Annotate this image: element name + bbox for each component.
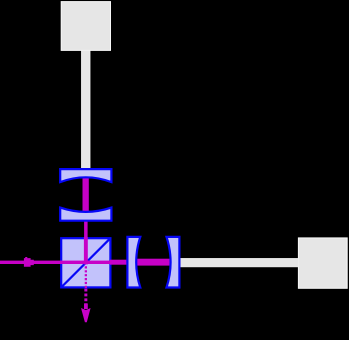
beamsplitter cube bbox=[61, 238, 110, 287]
horizontal beam cube to lens L3 (slightly thicker) bbox=[110, 260, 138, 265]
detector box top (laser/detector) bbox=[61, 2, 110, 51]
beamsplitter diagonal bbox=[61, 238, 110, 287]
thin horizontal input beam bbox=[0, 261, 138, 264]
wide vertical beam between lenses L1 L2 bbox=[83, 176, 89, 215]
wide horizontal beam between lenses L3 L4 bbox=[136, 259, 173, 266]
mounting rail vertical bbox=[81, 50, 90, 169]
lens L4 plano-concave (concave left, flat right) bbox=[167, 237, 180, 288]
thin vertical beam lens L2 to cube center bbox=[84, 212, 88, 238]
lens L2 plano-concave (concave top, flat bottom) bbox=[60, 208, 111, 221]
dotted transmitted beam below cube bbox=[84, 289, 87, 307]
mounting rail horizontal bbox=[179, 258, 298, 267]
downward arrowhead (dashed-arrow style) bbox=[84, 304, 88, 310]
detector box right bbox=[298, 238, 347, 288]
lens L1 plano-concave (flat top, concave bottom) bbox=[60, 169, 111, 182]
input beam arrowhead (blocky) bbox=[24, 258, 34, 267]
lens L3 plano-concave (flat left, concave right) bbox=[127, 237, 140, 288]
thin vertical beam inside cube bbox=[84, 237, 88, 264]
dotted transmitted beam inside cube bbox=[85, 266, 87, 288]
